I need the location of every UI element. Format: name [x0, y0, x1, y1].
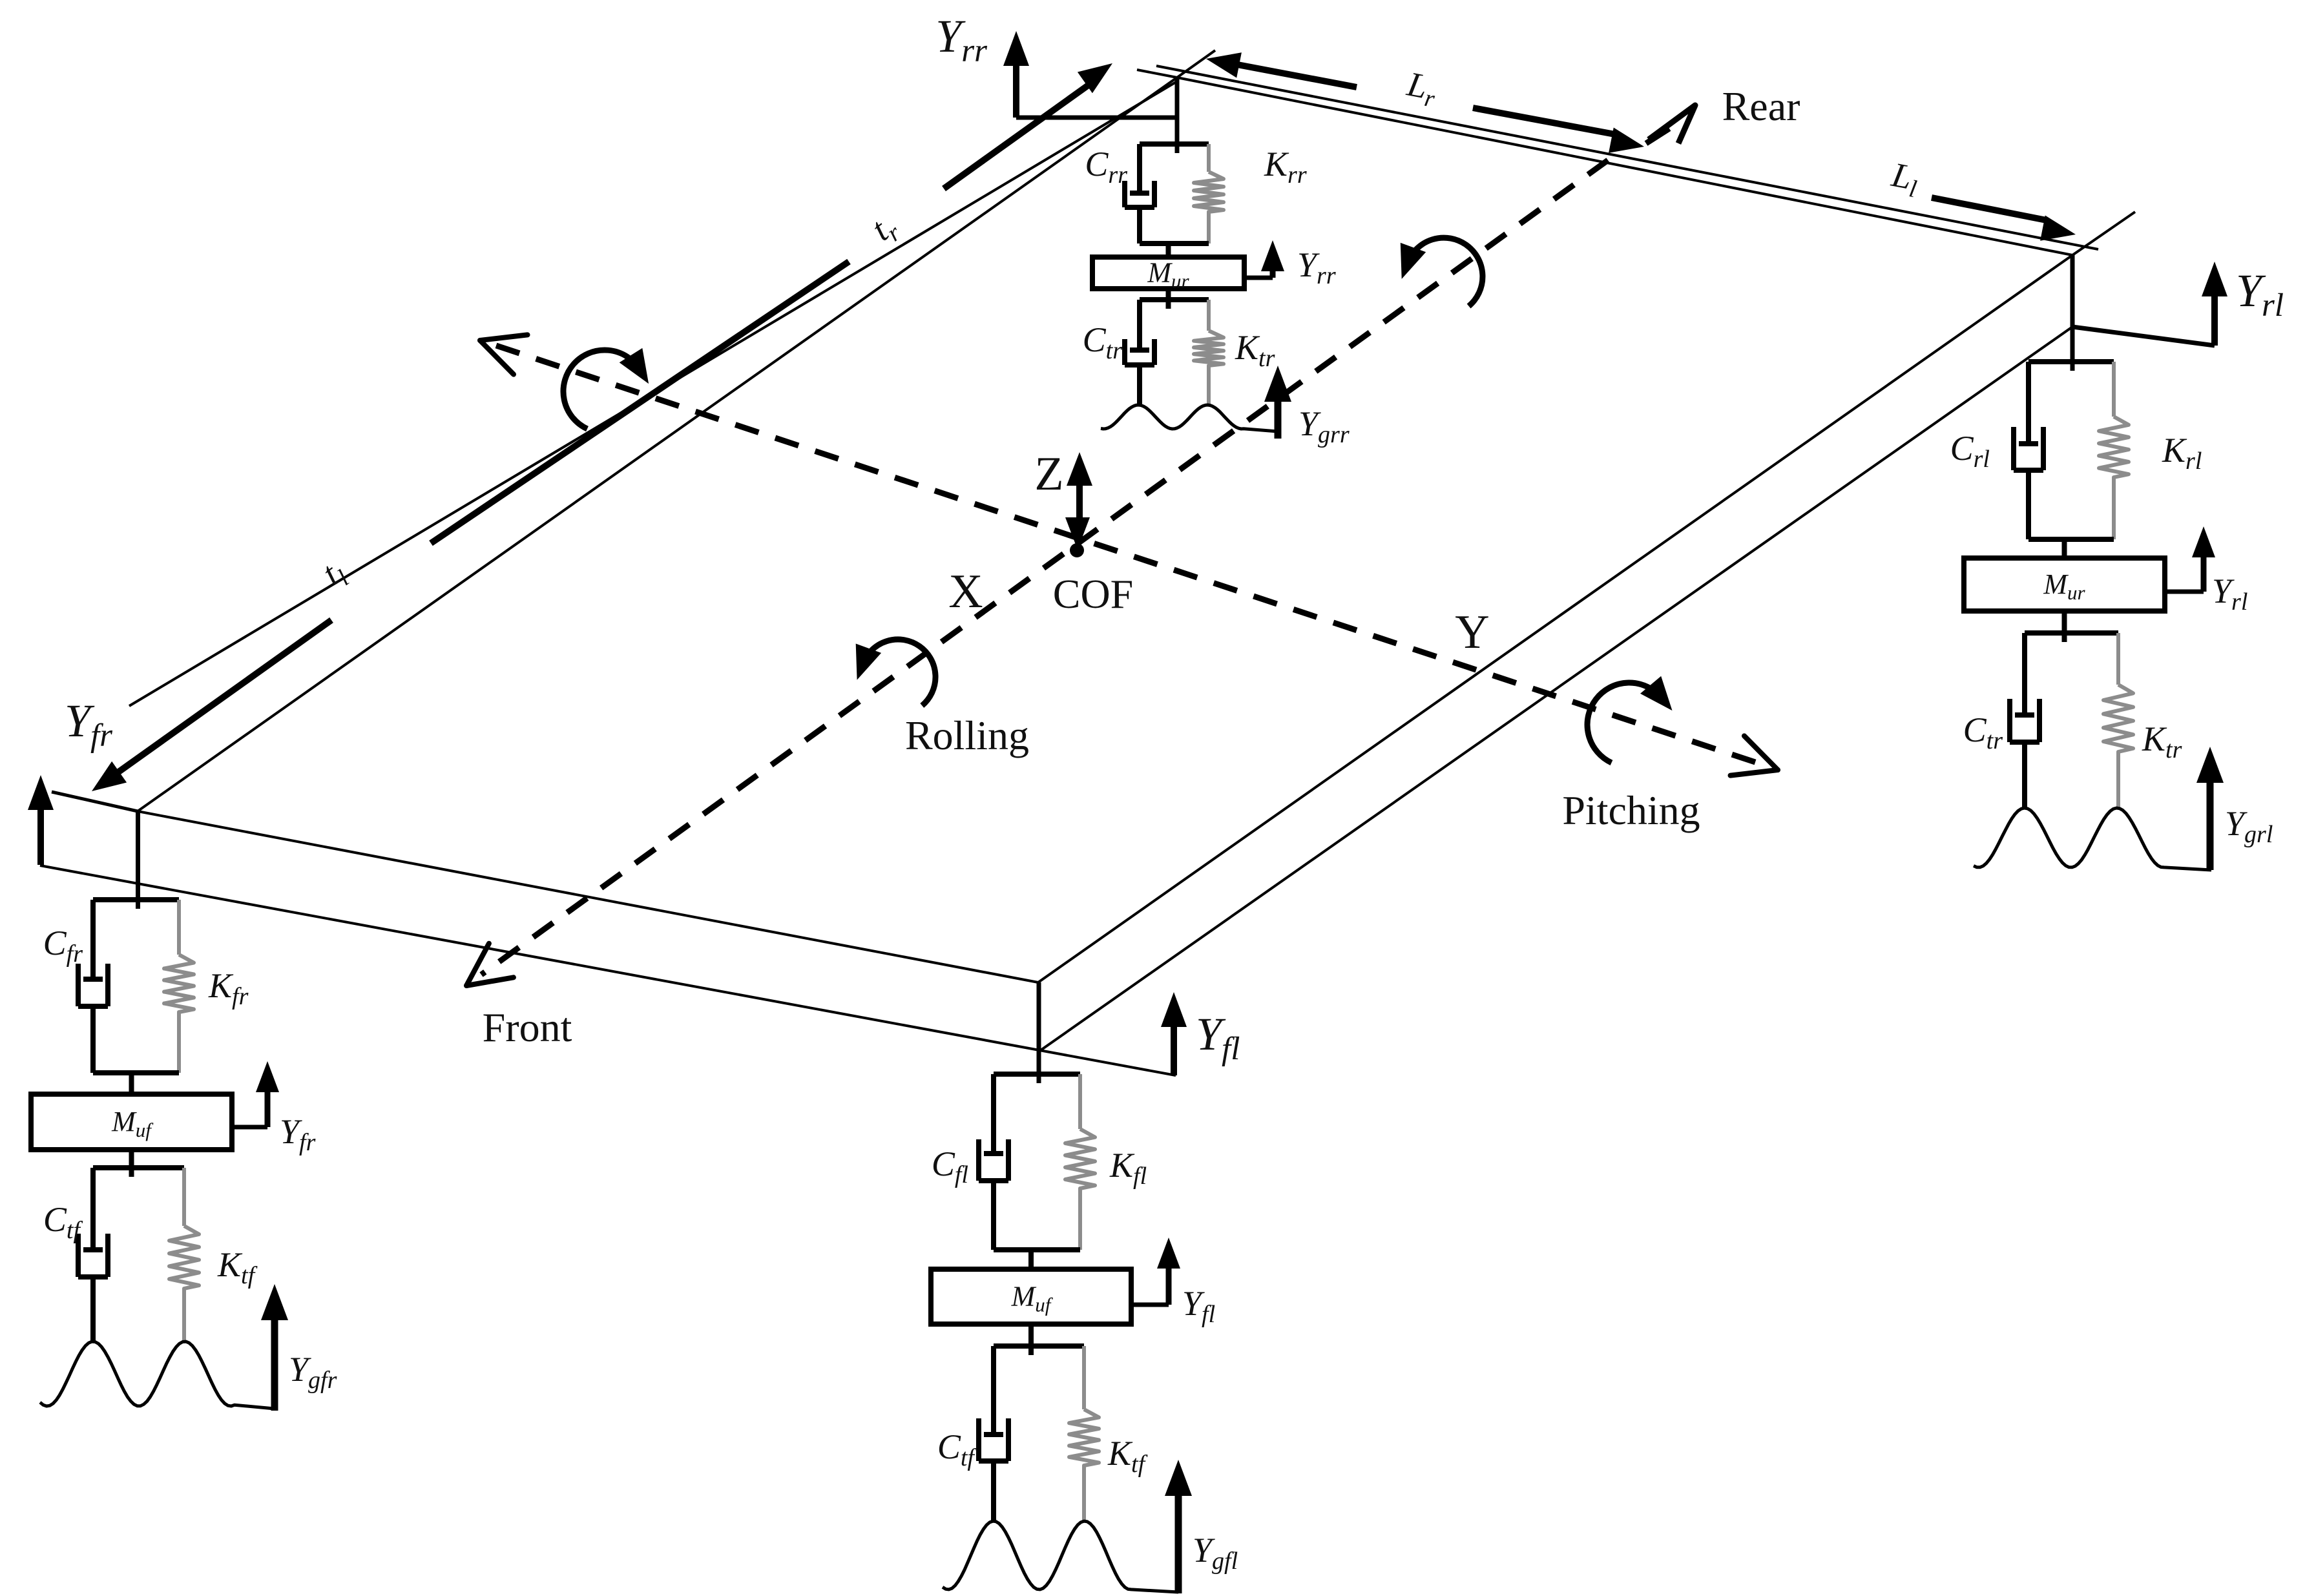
axis X front arrowhead (open): [466, 944, 514, 986]
corner displacement arrow Y_rl (rear-left): [2072, 262, 2227, 346]
stem from suspension to mass box (front-left): [1028, 1250, 1034, 1269]
svg-text:X: X: [948, 565, 983, 618]
label t_l: [315, 552, 354, 597]
road input arrow Y_gfr (front-right): [261, 1284, 288, 1411]
label L_r: [1403, 64, 1440, 113]
label Y_grr: [1299, 404, 1350, 448]
stem from mass box to tire unit (front-right): [129, 1150, 134, 1177]
rotation arc on X axis upper-right: [1401, 238, 1483, 306]
road input arrow Y_gfl (front-left): [1165, 1460, 1192, 1593]
plate front face bottom edge (also connector to Y_fl arrow): [40, 865, 1176, 1075]
label K_rr: [1264, 145, 1307, 189]
stem from suspension to mass box (rear-left): [2062, 539, 2067, 558]
corner displacement arrow Y_fl (front-left): [1161, 992, 1187, 1075]
label Front: [483, 1004, 572, 1050]
label Y axis: [1455, 606, 1489, 659]
road profile wave (front-right): [40, 1342, 275, 1409]
unsprung mass box M_ur (rear-right): [1092, 257, 1244, 293]
label C_fr: [43, 924, 83, 968]
label C_tf: [43, 1200, 83, 1244]
label K_rl: [2162, 431, 2202, 475]
car body plate right edge (bottom corner to right corner): [1038, 212, 2135, 982]
car body plate edge rear-left (top corner to left corner): [138, 50, 1215, 811]
label Y_fl (box): [1182, 1284, 1215, 1328]
stem from mass box to tire unit (rear-left): [2062, 611, 2067, 642]
corner displacement arrow Y_rr (rear-right): [1003, 31, 1176, 118]
suspension stem at plate corner (rear-right): [1175, 78, 1180, 153]
svg-text:Rolling: Rolling: [905, 712, 1029, 758]
unsprung mass box M_uf (front-left): [931, 1269, 1131, 1324]
label Y_fl (corner): [1196, 1008, 1240, 1067]
label C_tf: [937, 1427, 977, 1471]
suspension stem at plate corner (front-left): [1037, 982, 1041, 1083]
stem from suspension to mass box (front-right): [129, 1073, 134, 1094]
rotation arc Pitching (on Y axis): [1587, 676, 1672, 763]
axis Z arrow (vertical at COF): [1065, 452, 1092, 550]
label C_fl: [932, 1145, 968, 1188]
tire damper C_tf (front-right): [78, 1168, 184, 1342]
bottom bar of rear-right suspension frame: [1140, 241, 1209, 246]
rotation arc Rolling (on X axis): [856, 639, 935, 705]
label Y_rr (box): [1297, 245, 1336, 289]
label K_fl: [1109, 1146, 1147, 1190]
road input arrow Y_grl (rear-left): [2196, 747, 2224, 870]
dimension arrow L_r right half (toward center): [1473, 108, 1644, 153]
label Y_gfr: [289, 1350, 337, 1394]
label K_tr: [1235, 328, 1275, 372]
dimension arrow L_r left half (toward top corner): [1206, 52, 1357, 87]
label Y_fr (corner): [65, 695, 112, 754]
label K_tr: [2142, 720, 2182, 763]
label C_rl: [1950, 429, 1990, 473]
bottom bar of rear-left suspension frame: [2029, 537, 2114, 542]
svg-text:Pitching: Pitching: [1562, 787, 1700, 833]
label Y_grl: [2225, 804, 2273, 848]
unsprung mass box M_uf (front-right): [31, 1094, 232, 1150]
label Y_rl (box): [2212, 572, 2248, 616]
axis Y lower-right arrowhead (open): [1731, 736, 1778, 775]
road profile wave (rear-right): [1101, 405, 1278, 431]
road input arrow Y_grr (rear-right): [1264, 366, 1291, 439]
damper C_rr (rear-right suspension): [1125, 144, 1209, 244]
displacement arrow Y_rr at mass box (rear-right): [1244, 240, 1284, 278]
dimension arrow t_l (toward left corner): [92, 620, 331, 791]
rotation arc on Y axis upper-left: [563, 348, 649, 429]
COF dot: [1070, 543, 1084, 557]
tire spring K_tf (front-right): [169, 1168, 199, 1342]
damper C_rl (rear-left suspension): [2014, 362, 2114, 539]
tire damper C_tr (rear-left): [2010, 633, 2118, 808]
label Y_gfl: [1193, 1531, 1238, 1575]
spring K_fl (front-left suspension): [1065, 1074, 1095, 1250]
label Pitching: [1562, 787, 1700, 833]
axis X dashed line (longitudinal, front to rear): [481, 160, 1608, 975]
dimension line L (parallel to rear-right edge): [1156, 66, 2098, 249]
tire spring K_tr (rear-left): [2103, 633, 2133, 808]
car body plate edge rear-right (top corner to right corner): [1137, 70, 2072, 255]
label L_l: [1887, 155, 1922, 203]
bottom bar of front-right suspension frame: [93, 1070, 179, 1075]
tire damper C_tr (rear-right): [1125, 300, 1209, 405]
corner displacement arrow Y_fr (front-right): [28, 775, 138, 865]
displacement arrow Y_rl at mass box (rear-left): [2165, 526, 2215, 592]
stem from suspension to mass box (rear-right): [1166, 244, 1171, 257]
damper C_fl (front-left suspension): [979, 1074, 1080, 1250]
label Y_fr (box): [280, 1112, 316, 1156]
road profile wave (rear-left): [1974, 808, 2211, 870]
label K_tf: [1107, 1434, 1148, 1478]
spring K_rr (rear-right suspension): [1194, 144, 1224, 244]
stem from mass box to tire unit (rear-right): [1166, 289, 1171, 309]
svg-text:Y: Y: [1455, 606, 1489, 659]
label Y_rl (corner): [2236, 265, 2284, 324]
tire spring K_tf (front-left): [1069, 1346, 1099, 1521]
car body plate front edge (left corner to bottom corner): [138, 811, 1038, 982]
label K_tf: [217, 1245, 258, 1289]
label t_r: [864, 205, 906, 253]
tire damper C_tf (front-left): [979, 1346, 1084, 1521]
label Rolling: [905, 712, 1029, 758]
label COF: [1053, 571, 1134, 617]
axis Y dashed line (lateral): [496, 346, 1761, 764]
dimension line t (from top corner toward front-right): [129, 81, 1177, 706]
tire spring K_tr (rear-right): [1194, 300, 1224, 405]
label C_tr: [1963, 710, 2003, 754]
dimension arrow L_l (toward right corner): [1932, 198, 2076, 241]
damper C_fr (front-right suspension): [78, 900, 179, 1073]
label Rear: [1722, 83, 1800, 129]
suspension stem at plate corner (rear-left): [2070, 255, 2075, 371]
label Z axis: [1034, 448, 1063, 501]
stem from mass box to tire unit (front-left): [1028, 1324, 1034, 1355]
label K_fr: [208, 966, 249, 1010]
spring K_rl (rear-left suspension): [2099, 362, 2129, 539]
axis Y upper-left arrowhead (open): [480, 335, 528, 374]
direction arrow Rear (open): [1646, 105, 1695, 143]
road profile wave (front-left): [943, 1521, 1178, 1592]
label C_rr: [1085, 145, 1127, 189]
label Y_rr (corner): [935, 10, 987, 69]
displacement arrow Y_fl at mass box (front-left): [1131, 1238, 1180, 1305]
plate right face bottom edge: [1039, 327, 2072, 1052]
label X axis: [948, 565, 983, 618]
displacement arrow Y_fr at mass box (front-right): [232, 1061, 279, 1127]
label C_tr: [1083, 320, 1123, 364]
svg-text:COF: COF: [1053, 571, 1134, 617]
bottom bar of front-left suspension frame: [994, 1247, 1080, 1252]
svg-text:Front: Front: [483, 1004, 572, 1050]
svg-text:Rear: Rear: [1722, 83, 1800, 129]
spring K_fr (front-right suspension): [164, 900, 194, 1073]
suspension stem at plate corner (front-right): [136, 811, 140, 909]
dimension arrow t_r (toward top corner): [431, 63, 1112, 543]
unsprung mass box M_ur (rear-left): [1964, 558, 2165, 611]
svg-text:Z: Z: [1034, 448, 1063, 501]
